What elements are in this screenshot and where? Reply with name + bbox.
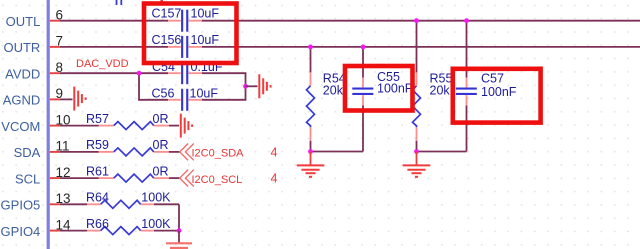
junction dot (179,230.6): [177, 228, 182, 233]
highlight box C157/C156: [144, 4, 237, 64]
svg-text:0R: 0R: [153, 138, 169, 152]
capacitor C54: [181, 62, 188, 84]
pin 7 stub: [50, 46, 60, 48]
wire vertical x310.5 (OUTR to R54): [310, 47, 312, 152]
wire net OUTL (pin6 row): [60, 20, 640, 22]
junction dot (245.5,86.3): [243, 84, 248, 89]
port chevron I2C0_SDA: [180, 144, 194, 161]
junction dot (310.5,46.9): [308, 45, 313, 50]
wire rail R54/C55 to ground: [311, 151, 364, 153]
wire vertical at x139 (pin8 to C56): [138, 73, 140, 100]
wire vertical x466.5 (OUTL to C57): [466, 21, 468, 152]
junction dot (310.5,151.5): [308, 149, 313, 154]
wire C56 row: [138, 99, 246, 101]
wire vertical x416.5 (OUTL to R55): [416, 21, 418, 152]
svg-text:10uF: 10uF: [190, 86, 219, 100]
wire vertical x363 (OUTR to C55): [362, 47, 364, 152]
svg-text:VCOM: VCOM: [1, 119, 40, 134]
capacitor C157: [181, 10, 188, 32]
wire stub down: [416, 152, 418, 165]
wire stub down: [310, 152, 312, 165]
ground (AGND pin9, right-pointing): [74, 87, 85, 111]
svg-text:DAC_VDD: DAC_VDD: [76, 58, 129, 70]
pin 6 stub: [50, 20, 60, 22]
wire net OUTR (pin7 row): [60, 46, 640, 48]
svg-text:GPIO5: GPIO5: [1, 198, 41, 213]
wire net GPIO5 (pin13 row): [60, 203, 179, 205]
capacitor C156: [181, 36, 188, 58]
capacitor C56: [181, 89, 188, 111]
svg-text:100nF: 100nF: [481, 85, 517, 99]
svg-text:I2C0_SDA: I2C0_SDA: [192, 148, 245, 160]
IC U? body edge: [47, 0, 50, 249]
capacitor C55: [352, 88, 373, 96]
wire stub to GPIO ground: [178, 231, 180, 244]
svg-text:OUTL: OUTL: [6, 14, 41, 29]
wire net SDA (pin11 row): [60, 151, 180, 153]
resistor R64: [101, 200, 141, 208]
wire stub to AVDD ground: [246, 85, 258, 87]
svg-text:100K: 100K: [141, 217, 171, 231]
capacitor C57: [456, 88, 477, 96]
svg-text:GPIO4: GPIO4: [1, 224, 41, 239]
resistor R66: [101, 227, 141, 235]
svg-text:4: 4: [271, 145, 278, 159]
svg-text:C157: C157: [152, 7, 182, 21]
pin 10 stub: [50, 125, 60, 127]
svg-text:R57: R57: [86, 112, 109, 126]
svg-text:SCL: SCL: [15, 171, 40, 186]
svg-text:SDA: SDA: [14, 145, 41, 160]
svg-text:AVDD: AVDD: [5, 67, 40, 82]
pin 13 stub: [50, 203, 60, 205]
svg-text:20k: 20k: [323, 84, 344, 98]
svg-text:R66: R66: [86, 217, 109, 231]
resistor R57: [114, 122, 154, 130]
svg-text:R59: R59: [86, 138, 109, 152]
svg-text:4: 4: [271, 172, 278, 186]
wire vertical x179 (R64 to R66 join): [178, 204, 180, 230]
svg-text:10uF: 10uF: [191, 7, 220, 21]
svg-text:C57: C57: [481, 71, 504, 85]
svg-text:C156: C156: [152, 33, 182, 47]
pin 11 stub: [50, 151, 60, 153]
junction dot (139,73): [137, 71, 142, 76]
wire rail R55/C57 to ground: [417, 151, 467, 153]
pin 9 stub: [50, 98, 60, 100]
svg-text:I2C0_SCL: I2C0_SCL: [192, 174, 243, 186]
highlight box C57: [453, 69, 541, 123]
ground (GPIO pulldowns, down-pointing): [166, 243, 192, 248]
junction dot (363,46.9): [361, 45, 366, 50]
svg-text:0R: 0R: [153, 164, 169, 178]
wire pin 9 to ground: [60, 98, 73, 100]
svg-text:R64: R64: [86, 191, 109, 205]
wire net VCOM (pin10 row): [60, 125, 179, 127]
resistor R61: [114, 174, 154, 182]
cut-off blue text stub (top): [117, 0, 122, 5]
svg-text:100K: 100K: [141, 191, 171, 205]
svg-text:100nF: 100nF: [377, 82, 413, 96]
svg-text:10uF: 10uF: [191, 33, 220, 47]
ground (R54/C55, down-pointing): [297, 165, 325, 176]
svg-text:OUTR: OUTR: [3, 40, 40, 55]
resistor R55: [413, 86, 421, 128]
junction dot (466.5,20.7): [464, 18, 469, 23]
highlight box C55: [345, 66, 413, 111]
resistor R59: [114, 148, 154, 156]
svg-text:C56: C56: [152, 86, 175, 100]
svg-text:20k: 20k: [430, 84, 451, 98]
cut-off red wire stub (top): [160, 0, 163, 5]
pin 12 stub: [50, 177, 60, 179]
svg-text:R61: R61: [86, 164, 109, 178]
pin 14 stub: [50, 230, 60, 232]
ground (R55/C57, down-pointing): [403, 165, 431, 176]
svg-text:0R: 0R: [153, 112, 169, 126]
junction dot (416.5,151.5): [414, 149, 419, 154]
port chevron I2C0_SCL: [180, 170, 194, 187]
pin 8 stub: [50, 72, 60, 74]
ground (AVDD decoupling, right-pointing): [259, 74, 270, 98]
ground (VCOM R57, right-pointing): [181, 114, 192, 138]
junction dot (416.5,20.7): [414, 18, 419, 23]
resistor R54: [307, 86, 315, 128]
wire vertical at x245.5 (C54/C56 join): [245, 73, 247, 100]
svg-text:AGND: AGND: [3, 93, 41, 108]
wire net DAC_VDD (pin8 row): [60, 72, 247, 74]
wire net SCL (pin12 row): [60, 177, 180, 179]
wire net GPIO4 (pin14 row): [60, 230, 179, 232]
